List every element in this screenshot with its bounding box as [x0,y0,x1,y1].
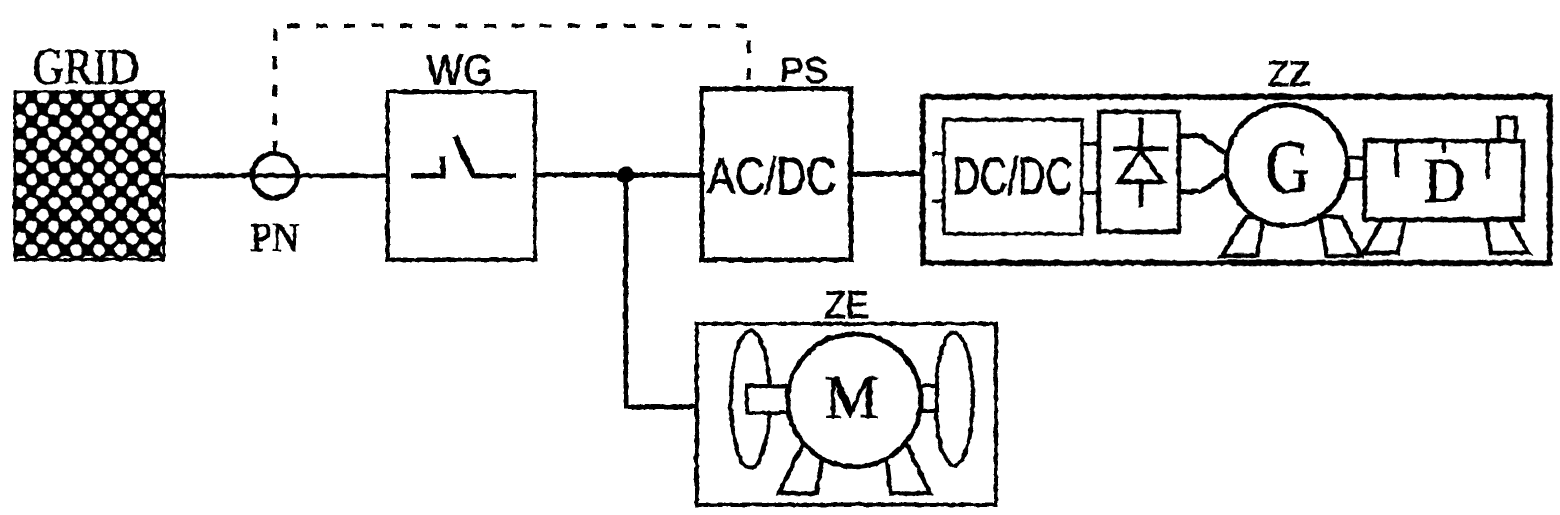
svg-text:DC/DC: DC/DC [952,147,1072,205]
svg-text:ZZ: ZZ [1267,54,1310,93]
label ZZ [1267,54,1310,93]
svg-text:M: M [824,364,878,431]
shaft coupling G to D [1347,157,1364,178]
label WG [426,45,492,94]
wire grid to WG box [163,173,387,178]
motor M circle [787,333,920,466]
generator G circle [1226,104,1347,225]
label D [1423,144,1465,215]
junction node [617,166,634,183]
switch symbol inside WG [410,136,515,177]
svg-text:PN: PN [250,214,299,259]
left shaft [746,385,787,412]
wire PS to ZZ [850,171,922,176]
DC/DC input stubs [931,153,944,200]
exhaust stub on D [1498,117,1515,142]
wire junction down to ZE [625,174,696,406]
label GRID [32,39,139,95]
generator G legs [1221,216,1360,255]
label AC/DC [707,147,836,205]
diode symbol [1112,117,1168,206]
box D (engine) [1364,140,1522,219]
svg-text:G: G [1265,125,1310,209]
svg-text:D: D [1423,144,1465,215]
dashed control line PN to PS [274,25,748,152]
svg-text:ZE: ZE [824,284,869,326]
right fan ellipse [935,332,972,465]
box WG [387,91,534,259]
label G [1265,125,1310,209]
wire WG to PS [534,172,701,177]
motor M legs [778,443,929,493]
svg-text:GRID: GRID [32,39,139,95]
box ZZ (genset group) [922,96,1549,262]
node PN (measuring point circle) [252,153,297,198]
label ZE [824,284,869,326]
label DC/DC [952,147,1072,205]
engine D legs [1363,219,1528,252]
box ZE (load motor unit) [696,323,995,504]
diode box [1098,111,1178,231]
wires DC/DC to diode box [1081,143,1098,192]
label PS [779,49,827,90]
label PN [250,214,299,259]
grid block (utility grid symbol) [14,91,163,259]
engine detail ticks [1396,142,1487,178]
box PS [701,88,850,259]
svg-text:PS: PS [779,49,827,90]
svg-text:WG: WG [426,45,492,94]
left fan ellipse [730,330,769,467]
right shaft [916,385,936,410]
label M [824,364,878,431]
box DC/DC [943,119,1081,233]
svg-text:AC/DC: AC/DC [707,147,836,205]
wires diode box to generator G [1178,135,1224,191]
